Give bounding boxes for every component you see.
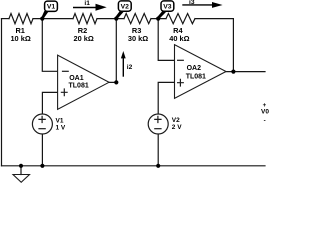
wire node V1 down to OA1 inverting input [42,19,57,72]
voltage source V2 circle [148,114,168,134]
current arrow i2 [121,51,126,77]
svg-text:20 kΩ: 20 kΩ [74,34,94,43]
wire R3 to node V3 [151,18,166,20]
svg-text:OA1: OA1 [69,75,84,82]
node V1 junction dot [40,17,44,21]
ground stub wire [20,166,22,175]
wire R4 to right feedback corner [195,18,233,20]
junction dot OA1 output [114,80,118,84]
svg-text:i1: i1 [84,0,90,7]
current arrow i1 [73,4,107,11]
svg-text:2 V: 2 V [172,124,182,131]
junction dot ground on bottom rail [19,164,23,168]
voltage source V1 circle [32,114,52,134]
node V1 callout leader [42,11,49,19]
wire OA2 noninverting input to V2 source [158,82,174,114]
svg-text:i2: i2 [127,64,133,71]
op-amp U2 OA2 triangle [175,45,227,99]
ground [13,175,30,183]
svg-text:V1: V1 [47,3,56,10]
wire OA1 noninverting input to V1 source [42,92,57,114]
resistor R3 [124,14,151,24]
svg-text:40 kΩ: 40 kΩ [169,34,189,43]
op-amp U1 OA1 plus sign [61,88,68,96]
wire top-left segment from left rail to R1 [2,18,10,20]
svg-text:V3: V3 [163,3,172,10]
current arrow i3 [182,2,222,8]
wire R1 to node V1 [33,18,73,20]
op-amp U1 OA1 minus sign [62,70,69,72]
resistor R2 [73,14,97,24]
svg-text:10 kΩ: 10 kΩ [10,34,30,43]
svg-text:-: - [264,118,266,125]
wire node V3 down to OA2 inverting input [158,19,174,61]
junction dot V1 source on bottom rail [40,164,44,168]
voltage source V1 minus sign [38,128,45,130]
node V1 callout box [45,1,58,11]
node V2 callout leader [115,11,124,19]
resistor R1 [9,14,33,24]
svg-text:TL081: TL081 [186,74,206,81]
op-amp U2 OA2 plus sign [177,79,184,87]
resistor R4 [166,14,195,24]
svg-text:V2: V2 [172,117,180,124]
svg-text:1 V: 1 V [56,124,66,131]
node V2 junction dot [114,17,118,21]
svg-text:V2: V2 [121,3,130,10]
op-amp U1 OA1 triangle [58,55,109,109]
op-amp U2 OA2 minus sign [177,59,184,61]
wire V1 source bottom to bottom rail [41,134,43,166]
voltage source V1 plus sign [38,116,45,123]
node V3 callout box [161,1,174,11]
wire OA1 output up to node V2 [109,19,116,83]
svg-text:TL081: TL081 [69,83,89,90]
node V3 callout leader [157,11,167,19]
wire R2 to node V2 [97,18,124,20]
junction dot V2 source on bottom rail [156,164,160,168]
node V3 junction dot [156,17,160,21]
wire feedback vertical down to OA2 output [232,19,234,72]
wire left rail [1,19,3,166]
svg-text:30 kΩ: 30 kΩ [128,34,148,43]
svg-text:OA2: OA2 [187,65,202,72]
svg-text:V0: V0 [261,109,269,116]
svg-text:i3: i3 [189,0,195,6]
node V2 callout box [118,1,131,11]
voltage source V2 minus sign [154,128,161,130]
wire OA2 output to V0 terminal [226,71,265,73]
wire bottom rail [2,165,266,167]
wire V2 source bottom to bottom rail [157,134,159,166]
voltage source V2 plus sign [154,116,161,123]
junction dot OA2 output [231,70,235,74]
